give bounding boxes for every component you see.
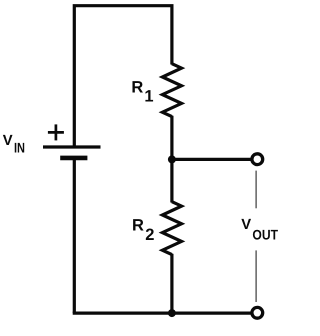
- label VOUT: [241, 217, 278, 243]
- svg-text:1: 1: [144, 88, 153, 106]
- svg-text:V: V: [3, 133, 13, 149]
- label R2: [132, 217, 154, 245]
- battery V1 bottom plate: [60, 156, 87, 161]
- wire bottom horizontal: [73, 312, 251, 315]
- wire thin upper vout lead: [255, 171, 257, 209]
- svg-text:OUT: OUT: [252, 226, 278, 242]
- wire mid horizontal to output: [172, 158, 251, 161]
- wire top horizontal: [74, 6, 172, 146]
- svg-text:R: R: [132, 217, 144, 235]
- svg-text:IN: IN: [14, 139, 25, 155]
- node junction dot bottom: [168, 309, 176, 317]
- label VIN: [3, 133, 25, 155]
- terminal lower output: [252, 307, 263, 318]
- resistor R2: [162, 202, 181, 255]
- wire thin lower vout lead: [255, 250, 257, 302]
- wire between R1 and R2: [170, 116, 173, 203]
- wire left lower from battery to bottom: [73, 160, 76, 313]
- node junction dot between R1 and R2: [168, 155, 176, 163]
- battery plus sign: [48, 124, 64, 140]
- svg-text:V: V: [241, 217, 251, 233]
- svg-text:R: R: [131, 79, 143, 97]
- terminal upper output: [252, 154, 263, 165]
- wire below R2: [170, 254, 173, 313]
- resistor R1: [162, 64, 181, 117]
- svg-text:2: 2: [145, 226, 154, 244]
- label R1: [131, 79, 153, 106]
- battery V1 top plate: [43, 145, 101, 148]
